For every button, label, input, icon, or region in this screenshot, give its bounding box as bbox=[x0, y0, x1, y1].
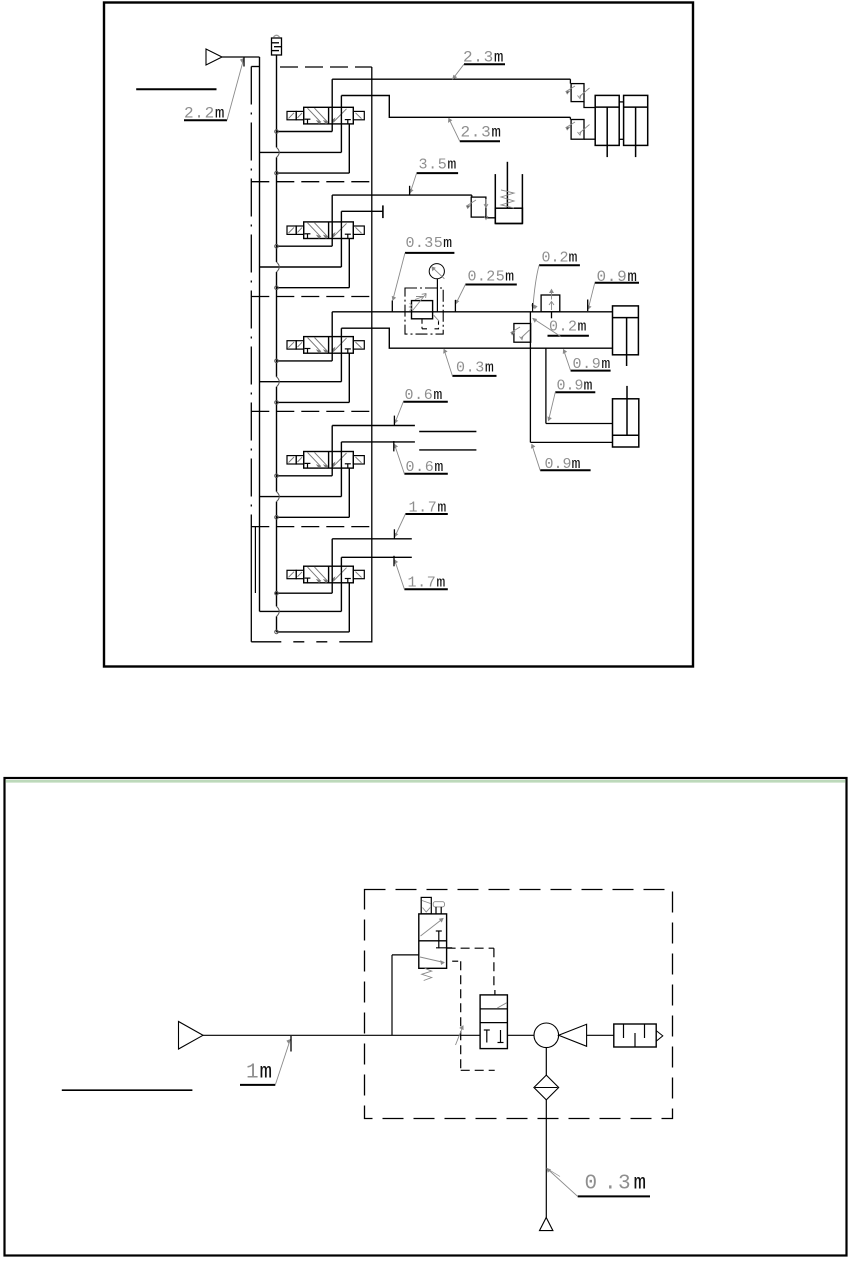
svg-text:m: m bbox=[260, 1062, 273, 1085]
svg-text:0.35m: 0.35m bbox=[406, 235, 453, 252]
svg-text:0.2m: 0.2m bbox=[542, 250, 578, 267]
svg-text:0.3m: 0.3m bbox=[456, 360, 494, 377]
svg-text:2.3m: 2.3m bbox=[461, 124, 502, 142]
svg-text:0.3m: 0.3m bbox=[585, 1173, 647, 1196]
svg-text:3.5m: 3.5m bbox=[419, 157, 457, 174]
svg-text:1: 1 bbox=[246, 1062, 259, 1085]
svg-text:0.25m: 0.25m bbox=[468, 269, 515, 286]
